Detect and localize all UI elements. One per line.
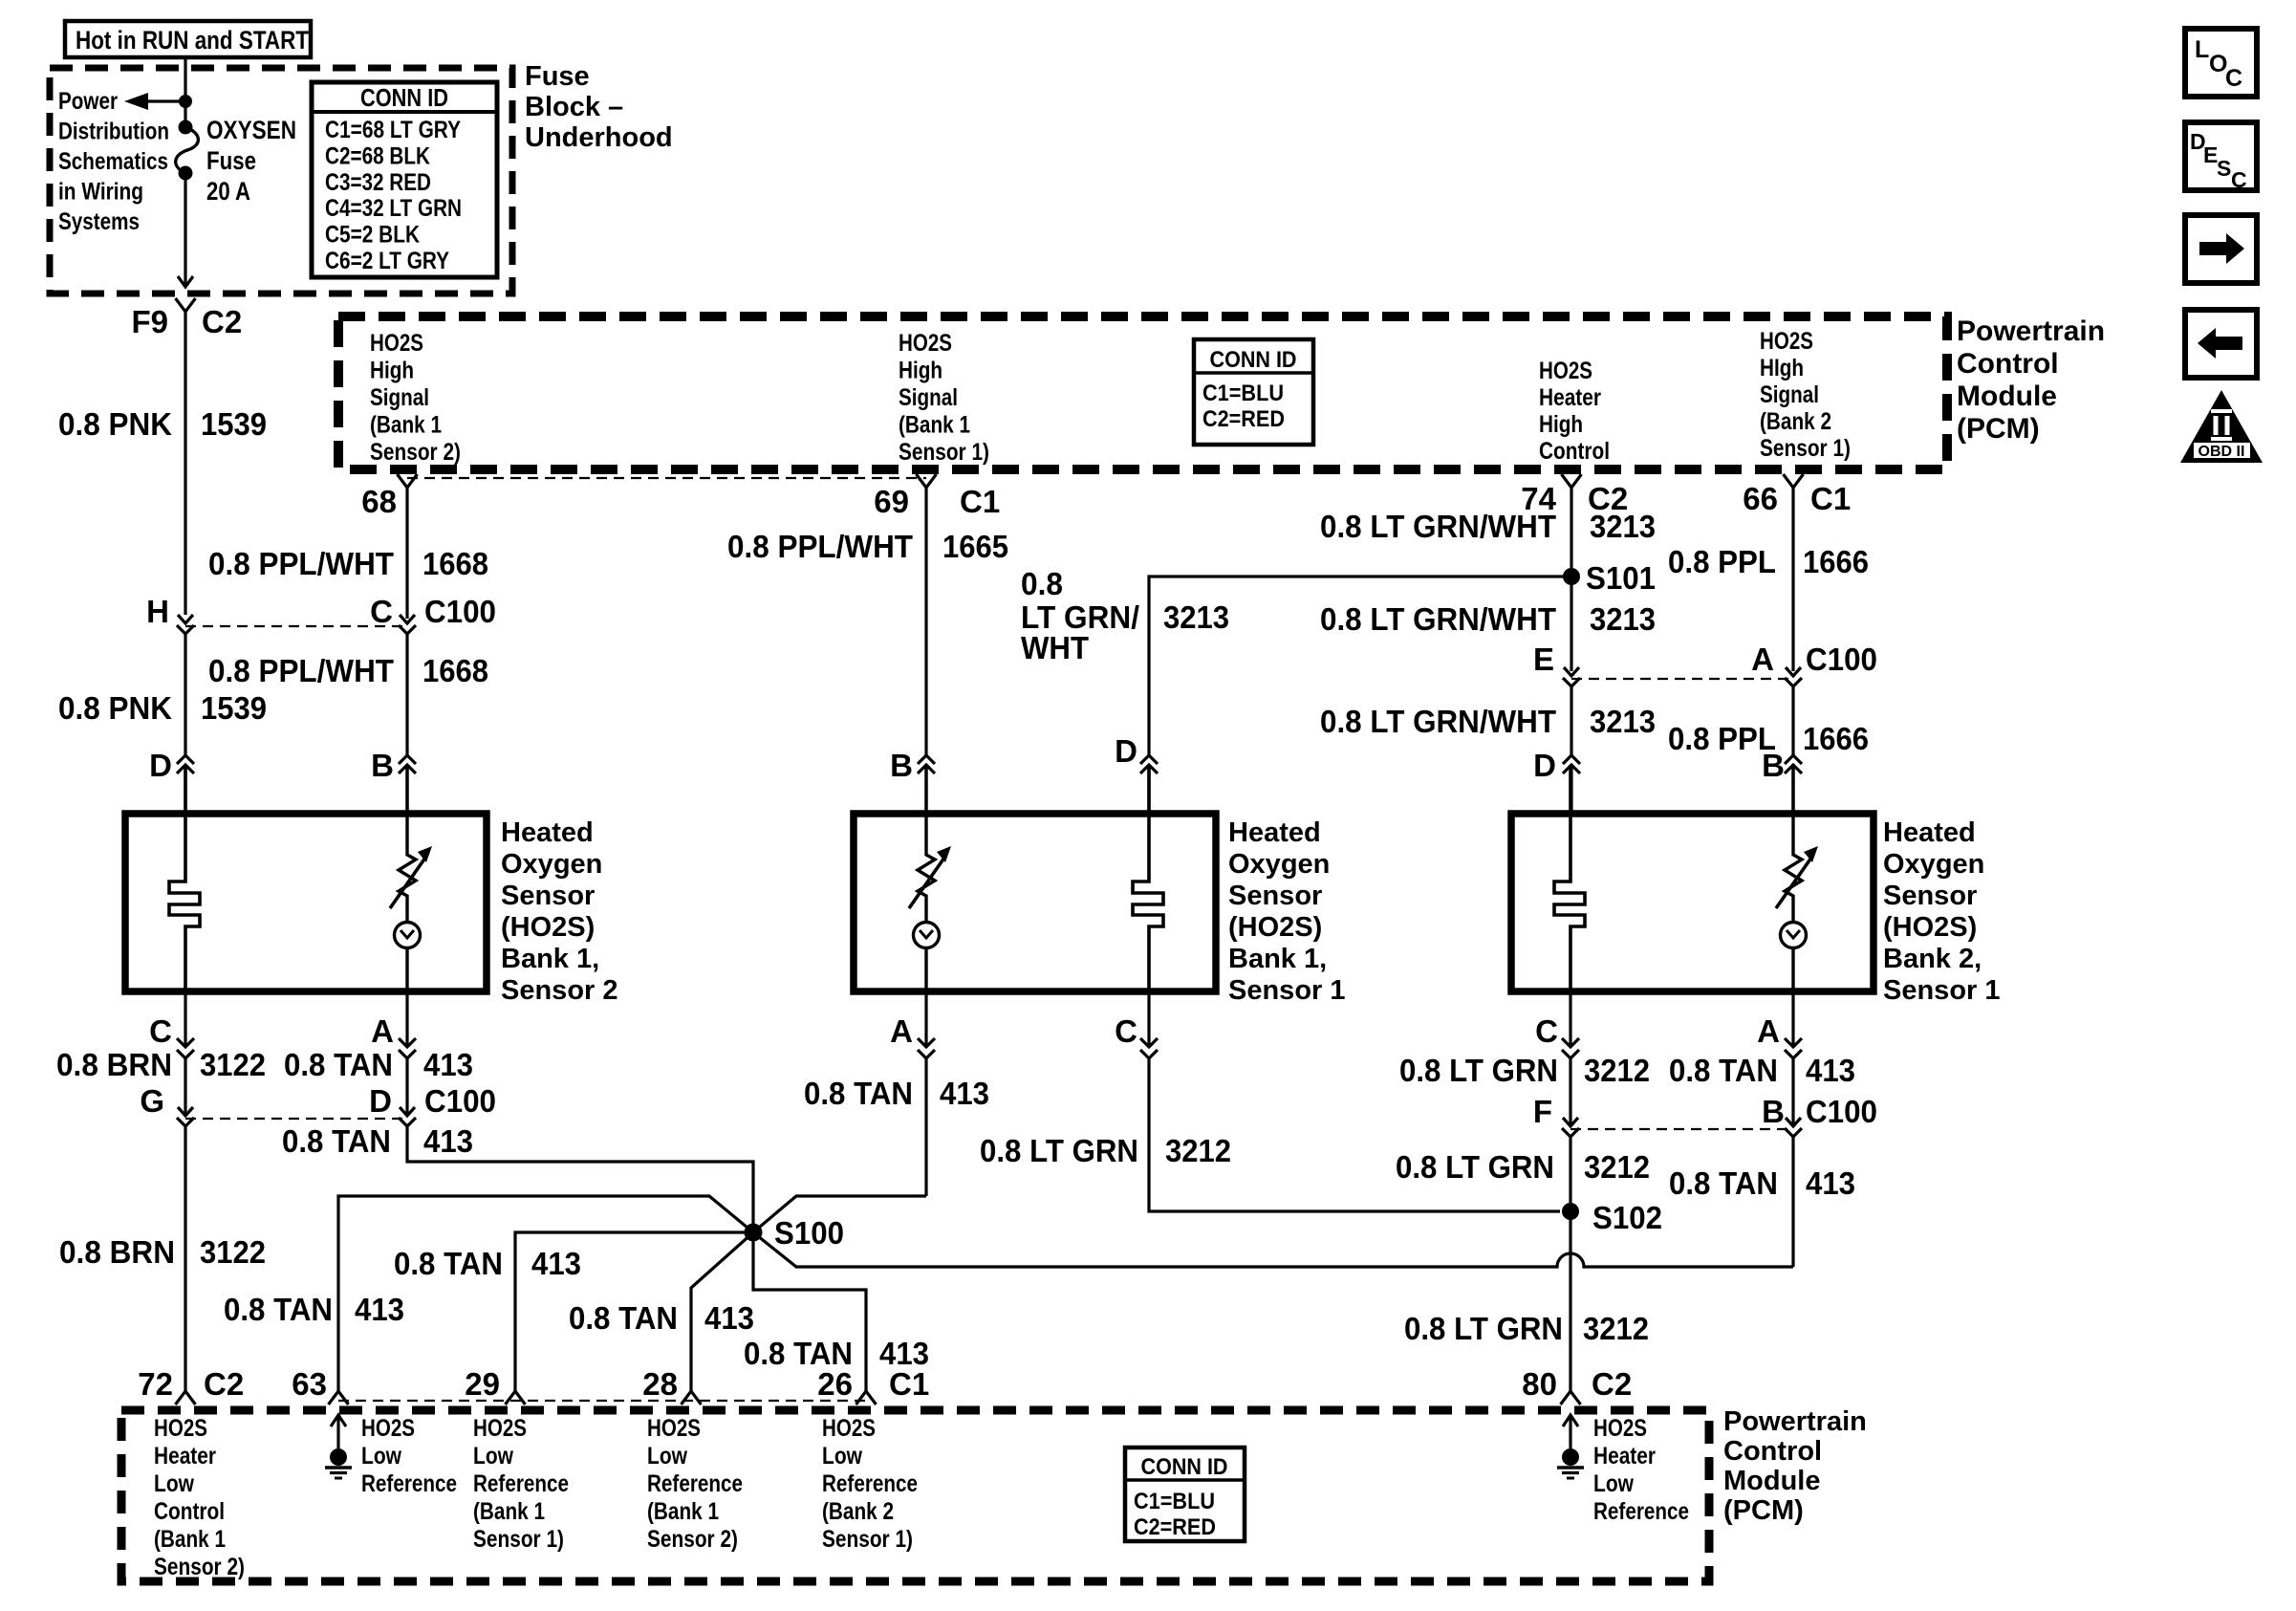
svg-text:Heater: Heater	[1539, 384, 1601, 411]
note: Power Distribution Schematics in Wiring Systems	[58, 88, 169, 235]
svg-text:S102: S102	[1592, 1200, 1662, 1235]
svg-text:(Bank 1: (Bank 1	[899, 412, 970, 439]
pin label C	[1115, 1013, 1137, 1049]
wire label 0.8 TAN 413	[1669, 1053, 1855, 1088]
svg-text:0.8 TAN: 0.8 TAN	[284, 1047, 393, 1082]
svg-text:Signal: Signal	[1760, 381, 1819, 408]
svg-text:C2=RED: C2=RED	[1134, 1514, 1216, 1540]
svg-text:D: D	[369, 1083, 392, 1119]
svg-text:C: C	[1115, 1013, 1137, 1049]
svg-text:26: 26	[817, 1366, 853, 1402]
fuse OXYSEN 20 A	[176, 120, 199, 181]
svg-text:413: 413	[704, 1300, 754, 1336]
component label Heated Oxygen Sensor (HO2S) Bank 2, Sensor 1	[1883, 817, 2001, 1006]
svg-text:66: 66	[1743, 481, 1778, 516]
svg-text:0.8 BRN: 0.8 BRN	[56, 1047, 172, 1082]
pin label G	[140, 1083, 164, 1119]
svg-text:3213: 3213	[1590, 704, 1656, 739]
svg-text:Sensor 2): Sensor 2)	[370, 439, 461, 466]
svg-text:0.8 LT GRN: 0.8 LT GRN	[1399, 1053, 1558, 1088]
wire label 0.8 TAN 413 (pin 63 wire)	[224, 1292, 404, 1327]
wire S100 NE branch to B1S1 sensor low	[753, 1196, 926, 1232]
splice label S102	[1592, 1200, 1662, 1235]
splice label S100	[774, 1215, 844, 1251]
svg-text:3122: 3122	[200, 1047, 266, 1082]
pin label 72 / C2	[138, 1366, 244, 1402]
icon DESC	[2185, 122, 2257, 192]
terminal C of HO2S B1S1	[1140, 991, 1158, 1058]
wire label 0.8 LT GRN/WHT 3213	[1320, 509, 1656, 544]
svg-text:Low: Low	[822, 1443, 862, 1469]
wire label 0.8 LT GRN 3212	[1399, 1053, 1650, 1088]
svg-text:3213: 3213	[1163, 599, 1229, 635]
label box "Hot in RUN and START"	[65, 21, 311, 57]
wire 0.8 TAN 413 (B2S1) upper segment	[1791, 1058, 1794, 1125]
sensing element (B1S2)	[390, 765, 432, 991]
svg-text:1666: 1666	[1803, 544, 1869, 579]
svg-text:Schematics: Schematics	[58, 148, 168, 175]
PCM internal ground (pin 63, HO2S low reference)	[325, 1415, 352, 1478]
svg-text:Sensor 1): Sensor 1)	[1760, 435, 1851, 462]
PCM pin function: HO2S High Signal (Bank 2 Sensor 1)	[1760, 328, 1851, 462]
svg-text:413: 413	[531, 1246, 581, 1281]
svg-text:HO2S: HO2S	[899, 330, 952, 357]
wire label 0.8 LT GRN 3212	[980, 1133, 1231, 1168]
pin labels 63 29 28 26 C1	[292, 1366, 929, 1402]
svg-text:(PCM): (PCM)	[1957, 413, 2040, 445]
wire label 0.8 TAN 413 (below C100)	[282, 1123, 473, 1159]
svg-text:413: 413	[940, 1076, 989, 1111]
pin label E	[1533, 642, 1554, 677]
svg-text:0.8 PPL/WHT: 0.8 PPL/WHT	[208, 653, 394, 688]
PCM label Powertrain Control Module (PCM) top right	[1957, 316, 2105, 445]
svg-text:C5=2 BLK: C5=2 BLK	[325, 222, 420, 249]
svg-text:B: B	[890, 748, 913, 783]
pin label F9 / C2	[131, 304, 242, 339]
svg-text:A: A	[371, 1013, 394, 1049]
wire label 0.8 PPL/WHT 1668	[208, 546, 488, 581]
wire S100 W branch to PCM 29	[515, 1232, 753, 1391]
wire label 0.8 TAN 413 (pin 29 wire)	[394, 1246, 581, 1281]
component label Heated Oxygen Sensor (HO2S) Bank 1, Sensor 2	[501, 817, 618, 1006]
svg-text:Sensor 2): Sensor 2)	[154, 1554, 245, 1580]
wire S100 NW branch to PCM 63 (ground reference)	[338, 1196, 753, 1391]
svg-text:3122: 3122	[200, 1234, 266, 1270]
wire label 0.8 PNK 1539 (below C100)	[58, 690, 267, 726]
svg-text:C2=68 BLK: C2=68 BLK	[325, 142, 430, 169]
svg-text:Sensor 1: Sensor 1	[1228, 975, 1346, 1006]
wire 0.8 PPL/WHT 1668 lower segment	[405, 634, 408, 755]
svg-text:Oxygen: Oxygen	[1228, 849, 1330, 880]
wire 0.8 LT GRN 3212 (S102 to PCM 80)	[1569, 1211, 1571, 1391]
svg-text:413: 413	[355, 1292, 404, 1327]
wire 0.8 BRN 3122 upper segment	[184, 1058, 186, 1115]
svg-text:H: H	[146, 594, 169, 629]
svg-text:(Bank 2: (Bank 2	[822, 1498, 894, 1525]
wire label 0.8 BRN 3122	[56, 1047, 266, 1082]
svg-text:HO2S: HO2S	[154, 1415, 207, 1442]
svg-text:Oxygen: Oxygen	[501, 849, 602, 880]
terminal B of HO2S B2S1	[1785, 755, 1802, 814]
wire label 0.8 LT GRN 3212 (mid)	[1396, 1149, 1650, 1185]
wire 0.8 LT GRN/WHT 3213 (PCM to S101)	[1570, 488, 1572, 568]
icon OBD II triangle	[2180, 390, 2263, 463]
svg-text:Sensor: Sensor	[1228, 881, 1322, 911]
splice S102	[1562, 1203, 1579, 1220]
svg-text:C1: C1	[1810, 481, 1851, 516]
svg-text:0.8 TAN: 0.8 TAN	[1669, 1165, 1778, 1201]
wire label 0.8 BRN 3122 (lower)	[59, 1234, 266, 1270]
connector fork PCM pin 72	[176, 1391, 196, 1404]
connector C100 pin D (TAN wire)	[399, 1107, 416, 1126]
splice S100	[745, 1224, 763, 1242]
heater element (B1S2)	[169, 765, 200, 991]
splice label S101	[1586, 560, 1656, 596]
pin label B	[1762, 748, 1785, 783]
wire label 0.8 TAN 413	[804, 1076, 989, 1111]
junction dot on feed wire	[179, 95, 192, 108]
svg-text:A: A	[1751, 642, 1774, 677]
svg-text:20 A: 20 A	[206, 177, 250, 206]
wire 0.8 LT GRN 3212 from B1S1 heater to S102	[1149, 1058, 1560, 1211]
svg-text:Fuse: Fuse	[206, 146, 256, 175]
pin label C / C100	[370, 594, 496, 629]
svg-text:413: 413	[1806, 1165, 1855, 1201]
svg-text:C6=2 LT GRY: C6=2 LT GRY	[325, 248, 449, 274]
svg-text:C: C	[149, 1013, 172, 1049]
PCM C1 connector dashed line (pins 63-26)	[338, 1400, 870, 1402]
svg-text:3212: 3212	[1584, 1149, 1650, 1185]
svg-text:Bank 1,: Bank 1,	[501, 944, 599, 974]
svg-text:G: G	[140, 1083, 164, 1119]
svg-text:Module: Module	[1957, 381, 2057, 412]
svg-text:OXYSEN: OXYSEN	[206, 116, 296, 144]
PCM (top) dashed box	[338, 316, 1947, 469]
svg-text:Control: Control	[1539, 438, 1610, 465]
heated oxygen sensor (HO2S) Bank 1 Sensor 1 box	[854, 814, 1216, 991]
svg-text:Control: Control	[1957, 348, 2059, 380]
wire label 0.8 PPL 1666 (lower)	[1668, 721, 1869, 756]
pin label B / C100	[1762, 1094, 1877, 1129]
svg-text:Powertrain: Powertrain	[1723, 1406, 1867, 1437]
svg-text:CONN ID: CONN ID	[360, 83, 448, 112]
svg-text:L: L	[2195, 36, 2209, 63]
PCM pin function: HO2S Low Reference (Bank 1 Sensor 2)	[647, 1415, 743, 1553]
svg-text:F: F	[1533, 1094, 1552, 1129]
svg-text:S: S	[2217, 156, 2231, 181]
svg-text:Sensor: Sensor	[1883, 881, 1977, 911]
svg-text:C: C	[1535, 1013, 1558, 1049]
svg-text:28: 28	[642, 1366, 678, 1402]
wire fuse to F9 exit	[184, 180, 186, 287]
pin label A	[371, 1013, 394, 1049]
PCM pin function: HO2S Heater High Control	[1539, 358, 1610, 465]
svg-text:29: 29	[465, 1366, 500, 1402]
svg-text:3212: 3212	[1584, 1053, 1650, 1088]
svg-text:C2: C2	[204, 1366, 244, 1402]
terminal D of HO2S B1S1	[1140, 755, 1158, 814]
wire S100 SE branch to B2S1 sensor low (with hop over S102 wire)	[753, 1232, 1793, 1267]
C100 dashed line (G-D row)	[185, 1118, 407, 1120]
CONN ID table (PCM bottom)	[1125, 1448, 1245, 1541]
svg-text:HO2S: HO2S	[370, 330, 423, 357]
terminal C of HO2S B2S1	[1562, 991, 1579, 1058]
svg-text:1539: 1539	[201, 406, 267, 442]
svg-text:0.8: 0.8	[1021, 566, 1063, 601]
wire label 0.8 TAN 413	[284, 1047, 473, 1082]
pin label 74 / C2	[1521, 481, 1628, 516]
svg-text:0.8 BRN: 0.8 BRN	[59, 1234, 175, 1270]
svg-text:(Bank 1: (Bank 1	[473, 1498, 545, 1525]
svg-text:C2: C2	[1592, 1366, 1632, 1402]
svg-text:(Bank 1: (Bank 1	[370, 412, 442, 439]
svg-text:Sensor 1): Sensor 1)	[473, 1526, 564, 1553]
PCM label Powertrain Control Module (PCM) bottom right	[1723, 1406, 1867, 1526]
svg-text:0.8 TAN: 0.8 TAN	[394, 1246, 503, 1281]
connector C100 pin G	[177, 1107, 194, 1126]
svg-text:0.8 LT GRN/WHT: 0.8 LT GRN/WHT	[1320, 509, 1556, 544]
wire label 0.8 LT GRN 3212 (lower)	[1404, 1311, 1649, 1346]
wire label 0.8 TAN 413 (pin 28 wire)	[569, 1300, 754, 1336]
svg-text:(PCM): (PCM)	[1723, 1495, 1804, 1526]
wire 0.8 PNK 1539 lower segment	[184, 634, 186, 755]
svg-text:HO2S: HO2S	[1760, 328, 1813, 355]
wire 0.8 PPL 1666 upper segment	[1791, 488, 1794, 671]
svg-text:C100: C100	[1806, 642, 1877, 677]
pin label D	[1533, 748, 1556, 783]
svg-text:0.8 TAN: 0.8 TAN	[1669, 1053, 1778, 1088]
svg-text:0.8 TAN: 0.8 TAN	[282, 1123, 391, 1159]
svg-text:A: A	[890, 1013, 913, 1049]
svg-text:High: High	[1539, 411, 1583, 438]
svg-text:0.8 PNK: 0.8 PNK	[58, 406, 172, 442]
svg-text:3213: 3213	[1590, 601, 1656, 637]
svg-text:HO2S: HO2S	[647, 1415, 701, 1442]
svg-text:413: 413	[1806, 1053, 1855, 1088]
svg-text:C1=68 LT GRY: C1=68 LT GRY	[325, 117, 461, 143]
wire 0.8 BRN 3122 lower segment to PCM 72	[184, 1126, 186, 1391]
component label Heated Oxygen Sensor (HO2S) Bank 1, Sensor 1	[1228, 817, 1346, 1006]
connector fork below fuse block	[176, 298, 196, 615]
svg-text:Low: Low	[361, 1443, 401, 1469]
svg-text:Low: Low	[647, 1443, 687, 1469]
connector C100 pin F	[1562, 1118, 1579, 1137]
terminal B of HO2S B1S1	[918, 755, 935, 814]
svg-text:Heated: Heated	[1228, 817, 1321, 848]
svg-text:in Wiring: in Wiring	[58, 179, 143, 206]
wire label 0.8 LT GRN/WHT 3213 (mid)	[1320, 601, 1656, 637]
pin label F	[1533, 1094, 1552, 1129]
C100 dashed line (H-C row)	[185, 625, 407, 627]
connector C100 pin H (PNK wire)	[177, 615, 194, 634]
svg-text:Sensor 1): Sensor 1)	[822, 1526, 913, 1553]
svg-text:Heater: Heater	[1593, 1443, 1656, 1469]
svg-text:Sensor 1): Sensor 1)	[899, 439, 989, 466]
svg-text:C: C	[2231, 167, 2247, 192]
pin label 66 / C1	[1743, 481, 1851, 516]
pin label 69 / C1	[874, 484, 1000, 519]
svg-text:C100: C100	[424, 594, 496, 629]
svg-text:C2=RED: C2=RED	[1202, 406, 1285, 432]
svg-text:413: 413	[423, 1123, 473, 1159]
svg-text:C1=BLU: C1=BLU	[1134, 1489, 1215, 1514]
pin label A	[1757, 1013, 1780, 1049]
icon LOC	[2185, 29, 2257, 97]
svg-text:OBD II: OBD II	[2199, 444, 2245, 460]
svg-text:Reference: Reference	[647, 1470, 743, 1497]
svg-text:A: A	[1757, 1013, 1780, 1049]
pin label 68	[361, 484, 397, 519]
svg-text:0.8 PNK: 0.8 PNK	[58, 690, 172, 726]
wire 0.8 PPL/WHT 1665	[924, 488, 927, 755]
connector fork PCM pin 66	[1784, 474, 1804, 488]
wire 0.8 PPL/WHT 1668 upper segment	[405, 488, 408, 619]
svg-text:Low: Low	[154, 1470, 194, 1497]
pin label B	[371, 748, 394, 783]
svg-text:D: D	[1533, 748, 1556, 783]
wire 0.8 LT GRN/WHT 3213 (C100 to B2S1 heater)	[1570, 686, 1572, 755]
connector fork PCM pin 69	[917, 474, 937, 488]
terminal A of HO2S B1S1	[918, 991, 935, 1058]
PCM internal ground (pin 80, HO2S heater low reference)	[1557, 1415, 1584, 1478]
svg-text:Power: Power	[58, 88, 118, 115]
svg-text:Hot in RUN and START: Hot in RUN and START	[76, 26, 309, 54]
arrow to power distribution schematics	[124, 93, 185, 110]
svg-text:F9: F9	[131, 304, 168, 339]
svg-text:Control: Control	[154, 1498, 225, 1525]
fuse block dashed box (Fuse Block - Underhood)	[50, 68, 512, 294]
svg-text:Oxygen: Oxygen	[1883, 849, 1984, 880]
svg-text:B: B	[371, 748, 394, 783]
icon arrow right	[2185, 215, 2257, 283]
heater element (B1S1)	[1133, 765, 1163, 991]
svg-text:69: 69	[874, 484, 909, 519]
svg-text:CONN ID: CONN ID	[1141, 1454, 1228, 1480]
wire label 0.8 TAN 413 (lower)	[1669, 1165, 1855, 1201]
svg-text:Low: Low	[473, 1443, 513, 1469]
fuse block name label	[525, 61, 673, 153]
wire label 0.8 LT GRN/WHT 3213 (lower)	[1320, 704, 1656, 739]
svg-text:Reference: Reference	[1593, 1498, 1689, 1525]
svg-text:Distribution: Distribution	[58, 119, 169, 145]
svg-text:0.8 LT GRN/WHT: 0.8 LT GRN/WHT	[1320, 704, 1556, 739]
wire label 0.8 PNK 1539	[58, 406, 267, 442]
svg-text:Control: Control	[1723, 1436, 1822, 1467]
PCM pin function: HO2S High Signal (Bank 1 Sensor 2)	[370, 330, 461, 466]
svg-text:C3=32 RED: C3=32 RED	[325, 169, 431, 196]
terminal C of HO2S B1S2	[184, 991, 186, 1047]
svg-text:High: High	[370, 358, 414, 384]
svg-text:C4=32 LT GRN: C4=32 LT GRN	[325, 195, 462, 222]
svg-text:Module: Module	[1723, 1466, 1821, 1496]
wire 0.8 LT GRN/WHT 3213 branch from S101 to B1S1 heater	[1149, 577, 1571, 755]
wire 0.8 LT GRN 3212 upper segment	[1569, 1058, 1571, 1125]
svg-text:HIgh: HIgh	[1760, 355, 1804, 381]
svg-text:68: 68	[361, 484, 397, 519]
wire 0.8 TAN 413 down to S100 horizontal	[1791, 1137, 1794, 1267]
wire 0.8 TAN 413 (B1S2 low) upper segment	[405, 1058, 408, 1115]
sensing element (B1S1)	[909, 765, 951, 991]
svg-text:B: B	[1762, 1094, 1785, 1129]
pin label D	[149, 748, 172, 783]
connector fork PCM pin 68	[398, 474, 418, 488]
PCM pin function: HO2S High Signal (Bank 1 Sensor 1)	[899, 330, 989, 466]
heated oxygen sensor (HO2S) Bank 2 Sensor 1 box	[1511, 814, 1874, 991]
connector fork PCM pin 80	[1561, 1391, 1581, 1404]
svg-text:Systems: Systems	[58, 208, 140, 235]
svg-text:Low: Low	[1593, 1470, 1634, 1497]
CONN ID table (fuse block)	[312, 82, 497, 277]
C100 dashed line (E-A row)	[1571, 678, 1793, 680]
terminal D of HO2S B2S1	[1563, 755, 1580, 814]
svg-text:HO2S: HO2S	[822, 1415, 876, 1442]
pin label D	[1115, 733, 1137, 769]
svg-text:Underhood: Underhood	[525, 122, 673, 153]
C100 dashed line (F-B row)	[1570, 1128, 1793, 1130]
terminal D of HO2S B1S2	[177, 755, 194, 814]
splice S101	[1563, 568, 1580, 585]
svg-text:1539: 1539	[201, 690, 267, 726]
svg-text:(HO2S): (HO2S)	[1883, 912, 1977, 943]
pin label H	[146, 594, 169, 629]
svg-text:Sensor 1: Sensor 1	[1883, 975, 2001, 1006]
svg-text:HO2S: HO2S	[1593, 1415, 1647, 1442]
wire 0.8 LT GRN 3212 (C100 to S102)	[1569, 1137, 1571, 1203]
PCM pin function: HO2S Low Reference (Bank 1 Sensor 1)	[473, 1415, 569, 1553]
svg-text:Reference: Reference	[361, 1470, 457, 1497]
pin label A / C100	[1751, 642, 1877, 677]
PCM C1 connector dashed line (pins 68-69)	[407, 477, 926, 479]
PCM pin function: HO2S Heater Low Reference	[1593, 1415, 1689, 1525]
svg-text:0.8 LT GRN: 0.8 LT GRN	[1396, 1149, 1554, 1185]
svg-text:413: 413	[423, 1047, 473, 1082]
svg-text:Sensor 2: Sensor 2	[501, 975, 618, 1006]
svg-text:1665: 1665	[942, 529, 1008, 564]
svg-text:S100: S100	[774, 1215, 844, 1251]
pin label C	[1535, 1013, 1558, 1049]
svg-text:0.8 PPL: 0.8 PPL	[1668, 544, 1776, 579]
PCM pin function: HO2S Low Reference (Bank 2 Sensor 1)	[822, 1415, 918, 1553]
svg-text:Heated: Heated	[501, 817, 594, 848]
connector fork PCM pin 74	[1562, 474, 1582, 488]
fuse block exit arrow (pin F9)	[178, 276, 193, 287]
wire S100 SW branch to PCM 28	[691, 1232, 753, 1391]
svg-text:C1: C1	[889, 1366, 929, 1402]
CONN ID table (PCM top)	[1194, 339, 1313, 445]
svg-text:Heated: Heated	[1883, 817, 1976, 848]
wire label 0.8 PPL 1666	[1668, 544, 1869, 579]
svg-text:0.8 PPL/WHT: 0.8 PPL/WHT	[208, 546, 394, 581]
wire label 0.8 PPL/WHT 1668 (below C100)	[208, 653, 488, 688]
svg-text:63: 63	[292, 1366, 327, 1402]
svg-text:(HO2S): (HO2S)	[1228, 912, 1322, 943]
svg-text:Bank 2,: Bank 2,	[1883, 944, 1982, 974]
svg-text:3212: 3212	[1583, 1311, 1649, 1346]
wire S100 S branch to PCM 26	[753, 1232, 866, 1391]
svg-text:E: E	[1533, 642, 1554, 677]
svg-text:72: 72	[138, 1366, 173, 1402]
pin label B	[890, 748, 913, 783]
svg-text:1666: 1666	[1803, 721, 1869, 756]
svg-text:Reference: Reference	[473, 1470, 569, 1497]
svg-text:0.8 PPL/WHT: 0.8 PPL/WHT	[727, 529, 913, 564]
svg-text:Powertrain: Powertrain	[1957, 316, 2105, 347]
connector C100 pin C	[399, 615, 416, 634]
svg-text:80: 80	[1522, 1366, 1557, 1402]
svg-text:High: High	[899, 358, 942, 384]
wire label 0.8 TAN 413 (pin 26 wire)	[744, 1336, 929, 1371]
wire from Hot in RUN box into fuse block	[184, 57, 186, 127]
